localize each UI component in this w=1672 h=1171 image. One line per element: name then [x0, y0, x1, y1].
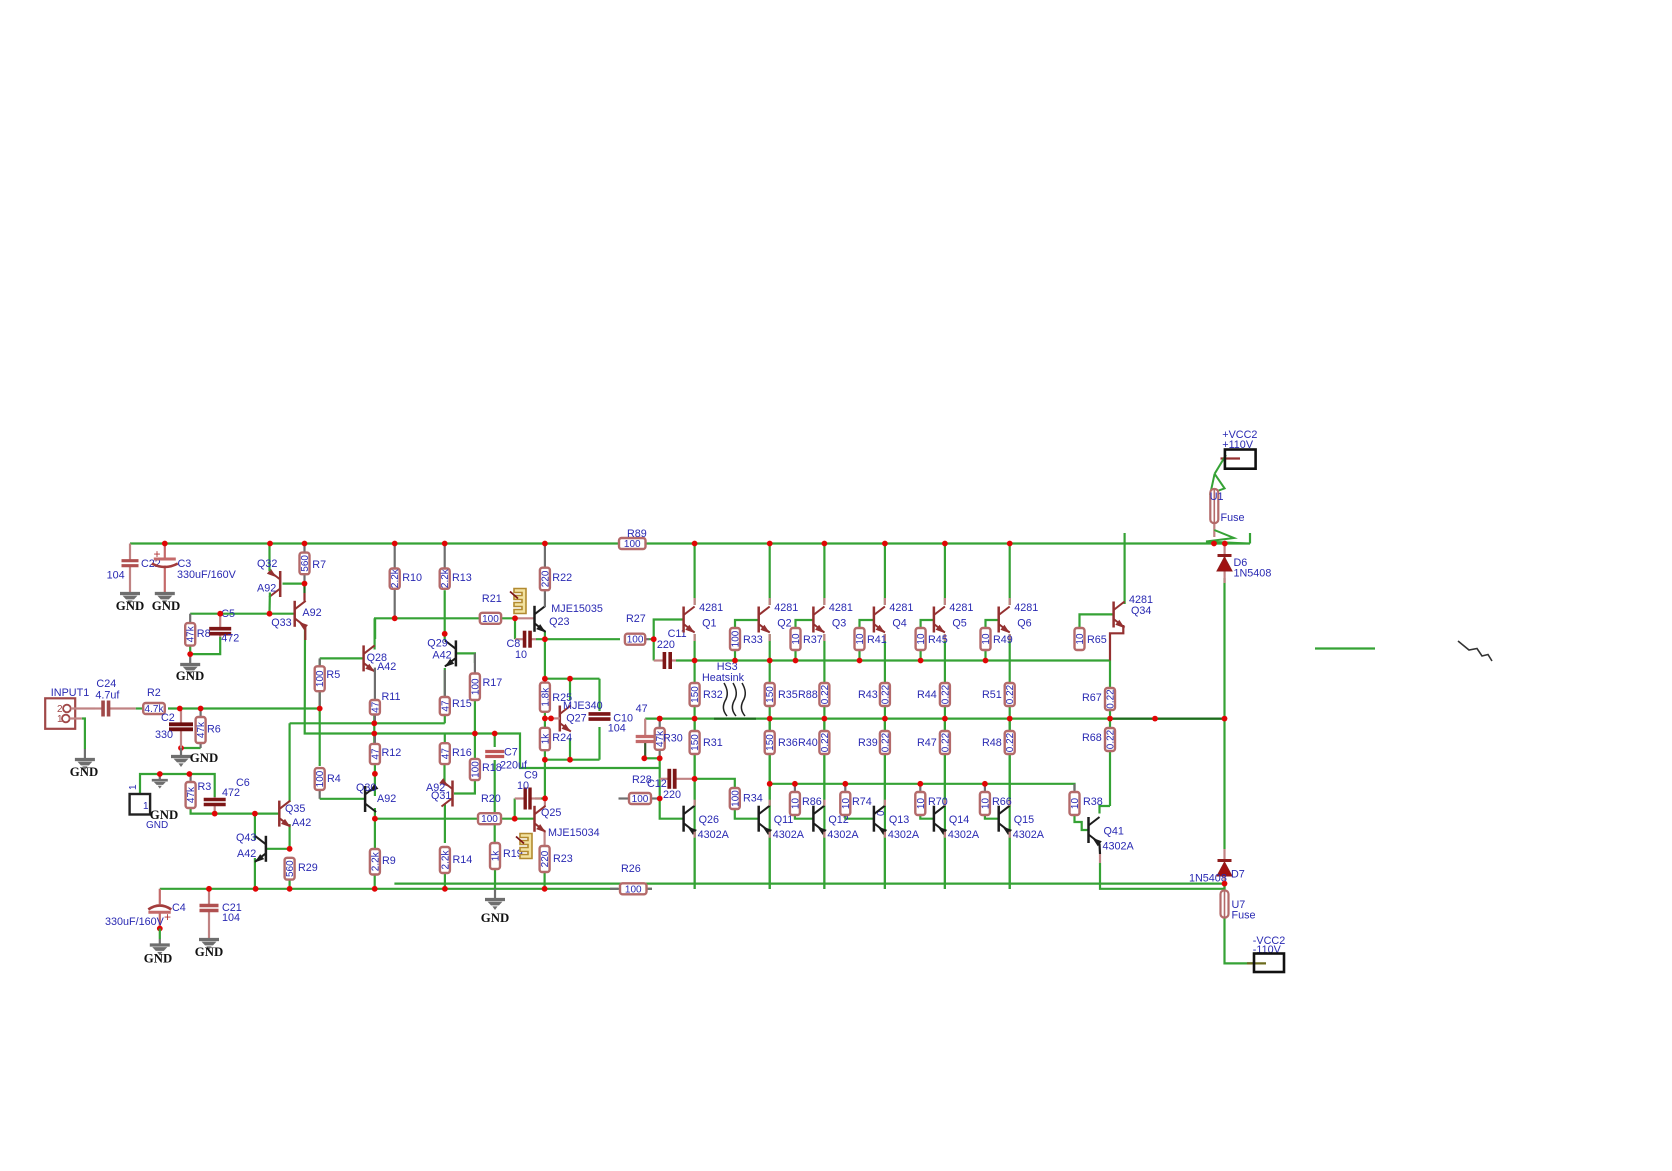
junction Q43 collector — [252, 811, 258, 817]
wire output column 1 emitter stub — [693, 634, 695, 641]
svg-text:GND: GND — [116, 599, 144, 613]
junction Q27 base a — [542, 716, 548, 722]
svg-text:220: 220 — [540, 850, 551, 867]
label Q2 — [777, 618, 791, 630]
svg-text:R65: R65 — [1087, 634, 1107, 646]
svg-text:R18: R18 — [482, 762, 502, 774]
transistor Q26 — [684, 806, 697, 835]
svg-text:Q1: Q1 — [702, 618, 716, 630]
label Q31 type — [426, 782, 445, 794]
svg-text:560: 560 — [285, 860, 296, 877]
wire Q35 emitter drop — [289, 824, 291, 849]
label C9 value — [517, 780, 529, 792]
capacitor C11 — [654, 652, 676, 669]
wire R30 bottom node — [644, 757, 659, 759]
capacitor C22 — [122, 544, 139, 593]
label P1 GND — [150, 808, 178, 822]
resistor R86 — [790, 784, 822, 815]
wire output column 6 mid — [1009, 706, 1011, 731]
wire R38 to Q41 base — [1075, 815, 1089, 830]
svg-text:0.22: 0.22 — [1005, 684, 1016, 704]
svg-text:150: 150 — [690, 686, 701, 703]
wire R4 column — [319, 709, 321, 767]
wire D6 through lead — [1223, 544, 1225, 584]
svg-text:GND: GND — [144, 952, 172, 966]
transistor Q30 — [365, 784, 378, 812]
svg-text:Q3: Q3 — [832, 618, 846, 630]
resistor R36 — [765, 731, 798, 754]
svg-text:220: 220 — [540, 570, 551, 587]
junction base drive — [372, 816, 378, 822]
wire D7 anode lead — [1223, 849, 1225, 861]
svg-text:INPUT1: INPUT1 — [51, 687, 89, 699]
junction Q23 emitter — [542, 636, 548, 642]
svg-text:R11: R11 — [382, 691, 401, 703]
junction return rail x374 — [372, 886, 378, 892]
wire output column 4 bottom — [884, 754, 886, 889]
svg-text:47: 47 — [636, 703, 648, 715]
wire bottom collector column 4 — [884, 719, 886, 806]
wire P1 row — [140, 774, 215, 797]
label Q43 — [236, 832, 256, 844]
junction C6 bottom — [212, 811, 218, 817]
wire bottom collector column 2 — [769, 719, 771, 806]
svg-text:0.22: 0.22 — [880, 684, 891, 704]
junction base rail x694 — [692, 658, 698, 664]
resistor R2 — [143, 687, 165, 715]
svg-text:R44: R44 — [917, 689, 937, 701]
junction mid rail x1224 — [1222, 716, 1228, 722]
junction C9 right — [542, 796, 548, 802]
resistor R9 — [370, 849, 396, 875]
svg-text:U1: U1 — [1210, 491, 1224, 503]
ground below C2 — [171, 748, 218, 767]
svg-text:R49: R49 — [993, 634, 1013, 646]
stray wire segment — [1315, 647, 1375, 649]
wire output column 2 bottom — [769, 754, 771, 889]
wire driver column down — [544, 750, 546, 798]
wire output column 3 emitter stub — [823, 634, 825, 641]
wire D7 to rail dot — [1223, 877, 1225, 884]
label C24 — [96, 678, 116, 690]
svg-text:R40: R40 — [798, 737, 818, 749]
junction R8 bottom — [187, 651, 193, 657]
label Q15 — [1014, 814, 1034, 826]
wire output mid rail dark — [1110, 717, 1225, 719]
wire Q43 base link — [266, 848, 290, 850]
fuse U1 — [1210, 488, 1218, 524]
junction top rail x884 — [882, 541, 888, 547]
svg-text:R3: R3 — [198, 781, 212, 793]
label Q26 type — [698, 829, 730, 841]
junction top rail x769 — [767, 541, 773, 547]
transistor Q5 — [934, 607, 945, 634]
junction input B — [198, 706, 204, 712]
ground below C3 — [152, 594, 180, 614]
junction R27 C11 — [651, 636, 657, 642]
svg-text:100: 100 — [730, 790, 741, 807]
junction top rail x944 — [942, 541, 948, 547]
junction R13 Q29 — [442, 631, 448, 637]
wire Q15 collector stub — [1009, 800, 1011, 806]
wire mirror link — [290, 722, 445, 724]
label Q33 type — [302, 607, 321, 619]
label Q6 — [1017, 618, 1031, 630]
junction base rail x735 — [732, 658, 738, 664]
svg-text:10: 10 — [980, 798, 991, 810]
svg-text:C4: C4 — [172, 902, 186, 914]
resistor R23 — [540, 846, 573, 872]
resistor R20 — [478, 793, 501, 825]
heatsink icon HS1 — [510, 589, 526, 614]
label C8 value — [515, 649, 527, 661]
label Q41 — [1104, 826, 1124, 838]
junction base rail x795 — [793, 658, 799, 664]
junction Q35 emitter — [287, 846, 293, 852]
svg-text:R32: R32 — [703, 689, 723, 701]
wire Q27 base tie — [544, 713, 546, 728]
svg-text:0.22: 0.22 — [940, 732, 951, 752]
wire output column 2 emitter — [769, 634, 771, 683]
svg-text:R38: R38 — [1083, 796, 1103, 808]
ground below R19 — [481, 889, 509, 925]
label D7 type — [1189, 873, 1227, 885]
svg-text:R4: R4 — [327, 773, 341, 785]
junction R30 bottom a — [641, 755, 647, 761]
svg-text:47: 47 — [370, 748, 381, 760]
wire output column 1 mid — [693, 706, 695, 731]
label Q11 type — [773, 829, 805, 841]
resistor R67 — [1082, 688, 1117, 710]
label Q11 — [774, 814, 794, 826]
svg-text:R14: R14 — [453, 854, 473, 866]
junction Q27 collector — [567, 676, 573, 682]
wire top base res bottom 4 — [919, 650, 921, 661]
wire -VCC pin — [1247, 962, 1266, 964]
transistor Q6 — [999, 607, 1010, 634]
svg-text:R33: R33 — [743, 634, 763, 646]
label C5 value — [221, 633, 239, 645]
ground P1 stub — [152, 774, 168, 789]
svg-text:10: 10 — [517, 780, 529, 792]
resistor R35 — [765, 683, 798, 706]
wire +VCC pin — [1221, 457, 1241, 459]
junction mid rail x769 — [767, 716, 773, 722]
svg-text:R7: R7 — [312, 559, 326, 571]
wire R9 drop — [374, 819, 376, 849]
junction input A — [177, 706, 183, 712]
junction top rail x164 — [162, 541, 168, 547]
label Q3 type — [829, 602, 853, 614]
svg-text:A42: A42 — [292, 817, 311, 829]
svg-text:100: 100 — [315, 770, 326, 787]
wire R24 node bottom — [545, 759, 600, 761]
label C21 — [222, 902, 242, 914]
svg-text:Q26: Q26 — [699, 814, 719, 826]
wire C10 branch — [598, 679, 600, 711]
svg-text:4302A: 4302A — [888, 829, 920, 841]
transistor Q25 — [535, 806, 546, 833]
svg-text:Q4: Q4 — [892, 618, 906, 630]
transistor Q2 — [759, 607, 770, 634]
wire R3 C6 bottom — [191, 808, 280, 814]
junction top rail x304 — [302, 541, 308, 547]
wire top rail right corner — [1249, 533, 1251, 544]
resistor R8 — [185, 614, 210, 646]
svg-text:R24: R24 — [552, 732, 572, 744]
wire bottom base link 3 — [920, 815, 934, 819]
svg-text:47: 47 — [370, 701, 381, 713]
wire C10 branch low — [598, 727, 600, 760]
wire Q15 emitter stub — [1009, 832, 1011, 838]
label Q29 type — [432, 650, 451, 662]
junction Q32 base R7 — [302, 581, 308, 587]
label D7 — [1231, 869, 1245, 881]
svg-text:220: 220 — [663, 789, 681, 801]
wire Q26 emitter stub — [693, 832, 695, 838]
svg-text:10: 10 — [1075, 633, 1086, 645]
wire Q32 emitter — [268, 544, 270, 572]
capacitor C6 — [204, 797, 226, 814]
svg-text:47k: 47k — [196, 721, 207, 738]
wire output column 5 collector stub — [944, 598, 946, 605]
resistor R39 — [858, 731, 891, 754]
svg-text:100: 100 — [632, 794, 649, 805]
resistor R10 — [390, 544, 422, 619]
label Q14 — [949, 814, 969, 826]
svg-text:R88: R88 — [798, 689, 818, 701]
svg-text:R17: R17 — [483, 677, 503, 689]
capacitor C12 — [660, 769, 695, 789]
junction P1 gnd — [157, 771, 163, 777]
junction bottom base rail x920 — [917, 781, 923, 787]
resistor R51 — [982, 683, 1016, 706]
svg-text:R36: R36 — [778, 737, 798, 749]
svg-text:Q43: Q43 — [236, 832, 256, 844]
label INPUT1 — [51, 687, 89, 699]
wire input node — [168, 707, 320, 709]
label Q34 type — [1129, 594, 1153, 606]
label C3 — [178, 558, 192, 570]
wire Q14 emitter drop — [944, 832, 946, 889]
junction top rail x824 — [822, 541, 828, 547]
svg-text:10: 10 — [916, 633, 927, 645]
junction top rail x1214 — [1211, 541, 1217, 547]
wire top base link 1 — [735, 620, 759, 628]
svg-text:GND: GND — [176, 669, 204, 683]
svg-text:10: 10 — [790, 798, 801, 810]
svg-text:4281: 4281 — [1014, 602, 1038, 614]
svg-text:R6: R6 — [207, 724, 221, 736]
capacitor 47 — [636, 737, 655, 742]
resistor R41 — [855, 628, 887, 650]
resistor R11 — [370, 668, 401, 724]
junction R10 bottom — [392, 615, 398, 621]
label R28 — [632, 774, 652, 786]
wire output column 5 bottom — [944, 754, 946, 889]
wire R16 top lead — [444, 734, 446, 744]
label +110V — [1222, 439, 1254, 451]
transistor Q12 — [813, 806, 826, 835]
fuse U7 — [1221, 890, 1229, 919]
junction R30 top — [657, 716, 663, 722]
resistor R25 — [540, 683, 572, 713]
svg-text:MJE15035: MJE15035 — [551, 603, 603, 615]
transistor Q14 — [934, 806, 947, 835]
capacitor C21 — [200, 889, 219, 938]
svg-text:R45: R45 — [928, 634, 948, 646]
svg-text:560: 560 — [300, 555, 311, 572]
label HS3 — [717, 661, 738, 673]
junction mid rail x884 — [882, 716, 888, 722]
junction C5 cap — [217, 611, 223, 617]
svg-text:Q34: Q34 — [1131, 605, 1151, 617]
wire R30 node drop — [659, 758, 661, 779]
svg-text:R15: R15 — [452, 698, 472, 710]
svg-text:R23: R23 — [553, 853, 573, 865]
wire output column 3 mid — [823, 706, 825, 731]
capacitor C24 — [95, 701, 136, 717]
stray scratch mark — [1458, 641, 1492, 661]
wire R18 drop — [474, 734, 476, 759]
svg-text:47k: 47k — [186, 625, 197, 642]
wire Q43 emitter drop — [254, 858, 256, 889]
junction return rail x444 — [442, 886, 448, 892]
wire Q33 emitter diag — [303, 593, 305, 601]
wire R65 to Q34 base — [1080, 614, 1114, 629]
svg-text:0.22: 0.22 — [1005, 732, 1016, 752]
svg-text:100: 100 — [315, 670, 326, 687]
wire bottom collector column 5 — [944, 719, 946, 806]
wire R29 bottom — [289, 880, 291, 889]
resistor R45 — [916, 628, 948, 650]
resistor R12 — [370, 734, 401, 765]
svg-text:4302A: 4302A — [1103, 841, 1135, 853]
label C4 value — [105, 916, 165, 928]
wire output column 6 collector stub — [1009, 598, 1011, 605]
wire D6 to mid rail — [1223, 578, 1225, 719]
wire Q14 emitter stub — [944, 832, 946, 838]
wire output column 6 collector — [1009, 544, 1011, 606]
resistor R66 — [980, 784, 1012, 815]
capacitor C4 — [148, 889, 171, 929]
svg-text:4281: 4281 — [889, 602, 913, 614]
svg-text:R16: R16 — [452, 747, 472, 759]
wire Q11 emitter stub — [769, 832, 771, 838]
wire output column 3 collector stub — [823, 598, 825, 605]
wire output column 2 collector stub — [769, 598, 771, 605]
label Q26 — [699, 814, 719, 826]
label Q13 zero — [876, 810, 887, 816]
junction R28 right — [657, 796, 663, 802]
junction mid rail x1110 — [1107, 716, 1113, 722]
wire output column 4 collector — [884, 544, 886, 606]
junction R12 top — [371, 731, 377, 737]
svg-text:A42: A42 — [377, 661, 396, 673]
svg-text:220: 220 — [657, 639, 675, 651]
wire VAS column — [305, 626, 660, 769]
svg-text:1: 1 — [57, 714, 63, 725]
wire bottom rail — [394, 882, 1224, 884]
transistor Q35 — [279, 801, 290, 828]
svg-text:150: 150 — [690, 734, 701, 751]
junction top rail x694 — [692, 541, 698, 547]
wire Q29 collector up — [444, 634, 446, 641]
label C5 — [221, 608, 235, 620]
wire Q30 emitter up — [374, 764, 376, 796]
svg-text:2.2k: 2.2k — [390, 568, 401, 588]
label Q30 type — [377, 793, 396, 805]
wire output column 1 collector — [693, 544, 695, 606]
transistor Q1 — [684, 607, 695, 634]
wire Q25 emitter to R23 — [543, 832, 545, 846]
junction Q23 base — [512, 615, 518, 621]
label C9 — [524, 770, 538, 782]
ground below C4 — [144, 939, 172, 966]
wire Q41 emitter drop — [1098, 844, 1101, 855]
svg-text:4302A: 4302A — [827, 829, 859, 841]
svg-text:Q14: Q14 — [949, 814, 969, 826]
svg-text:Q32: Q32 — [257, 558, 277, 570]
resistor R88 — [798, 683, 831, 706]
wire mid rail to D7 — [1223, 719, 1225, 849]
wire Q26 emitter drop — [693, 832, 695, 889]
wire bottom base link 2 — [845, 815, 874, 819]
transistor Q11 — [759, 806, 772, 835]
wire Q35 collector column — [289, 723, 291, 802]
label +VCC2 — [1222, 429, 1257, 441]
wire C7 column — [494, 734, 496, 748]
wire Q28 base — [320, 657, 364, 659]
svg-text:Fuse: Fuse — [1221, 512, 1245, 524]
wire R67 top lead — [1109, 661, 1111, 689]
wire bottom base link 1 — [795, 815, 814, 819]
svg-text:2.2k: 2.2k — [440, 850, 451, 870]
label C6 value — [222, 787, 240, 799]
label C22 value — [107, 570, 125, 582]
resistor R3 — [186, 774, 212, 808]
junction R17 bottom — [472, 731, 478, 737]
label D6 — [1234, 557, 1248, 569]
label Q28 — [367, 652, 387, 664]
svg-text:100: 100 — [482, 614, 499, 625]
svg-text:Q11: Q11 — [774, 814, 794, 826]
junction C7 top — [492, 731, 498, 737]
label Q2 type — [774, 602, 798, 614]
wire C2 gnd link — [181, 747, 201, 749]
wire output column 5 emitter — [944, 634, 946, 683]
wire Q23 emitter column — [544, 631, 546, 683]
transistor Q32 — [267, 569, 280, 597]
wire R68 bottom — [1109, 751, 1111, 806]
resistor R21 — [480, 593, 502, 625]
wire U7 top lead — [1223, 884, 1225, 891]
svg-text:Q5: Q5 — [952, 618, 966, 630]
resistor R26 — [610, 863, 652, 895]
svg-text:GND: GND — [481, 911, 509, 925]
resistor R31 — [690, 731, 723, 754]
svg-text:100: 100 — [624, 539, 641, 550]
wire +VCC top rail — [130, 542, 1250, 544]
svg-text:R66: R66 — [992, 796, 1012, 808]
wire Q33 emitter drop — [303, 586, 305, 593]
svg-text:330uF/160V: 330uF/160V — [177, 569, 237, 581]
label Q34 — [1131, 605, 1151, 617]
svg-text:0.22: 0.22 — [820, 732, 831, 752]
svg-text:100: 100 — [470, 761, 481, 778]
junction top rail x444 — [442, 541, 448, 547]
label Q27 type — [563, 700, 603, 712]
